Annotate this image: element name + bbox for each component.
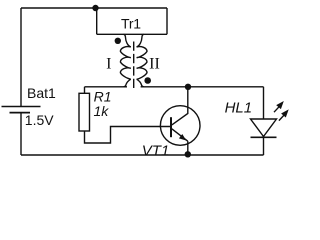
svg-text:HL1: HL1 xyxy=(225,100,253,117)
svg-text:1k: 1k xyxy=(94,103,110,119)
svg-text:1.5V: 1.5V xyxy=(25,112,54,128)
svg-text:Bat1: Bat1 xyxy=(27,85,56,101)
svg-text:VT1: VT1 xyxy=(142,143,170,160)
svg-text:Tr1: Tr1 xyxy=(121,16,141,32)
svg-text:II: II xyxy=(149,56,160,73)
svg-text:I: I xyxy=(106,56,111,73)
